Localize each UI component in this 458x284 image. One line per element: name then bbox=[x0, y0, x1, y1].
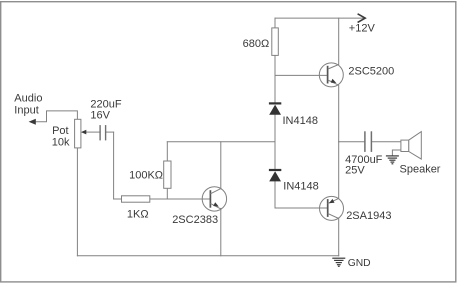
wire Q3 emitter riser bbox=[338, 142, 340, 199]
diode IN4148 lower bbox=[269, 169, 281, 182]
speaker bbox=[401, 132, 421, 160]
wire 220uF to input vertical bbox=[106, 131, 114, 133]
svg-text:25V: 25V bbox=[345, 165, 365, 177]
wire pot bottom drop bbox=[76, 148, 78, 256]
wire D2 to Q3 base bbox=[275, 182, 328, 209]
svg-text:10k: 10k bbox=[52, 137, 70, 149]
wire top rail to +12V bbox=[275, 17, 364, 19]
wire 680 bottom to D1 bbox=[274, 55, 276, 102]
diode IN4148 upper bbox=[269, 102, 281, 115]
svg-text:Input: Input bbox=[14, 104, 38, 116]
ground speaker bbox=[386, 156, 399, 164]
svg-text:Speaker: Speaker bbox=[400, 163, 441, 175]
transistor Q2 2SC2383 bbox=[202, 187, 226, 211]
ground GND bbox=[332, 258, 345, 266]
wire Q3 collector drop bbox=[338, 219, 340, 256]
wire bottom rail bbox=[77, 255, 338, 257]
wire 100K top stub bbox=[166, 142, 168, 161]
svg-text:Audio: Audio bbox=[14, 93, 42, 105]
resistor 1K bbox=[122, 196, 150, 202]
potentiometer Pot 10k bbox=[75, 119, 87, 148]
wire Q1 collector riser bbox=[338, 18, 340, 64]
+12V supply arrow bbox=[358, 14, 366, 23]
capacitor 4700uF bbox=[365, 131, 372, 152]
svg-text:+12V: +12V bbox=[349, 23, 376, 35]
svg-text:1KΩ: 1KΩ bbox=[127, 209, 149, 221]
resistor 100K bbox=[164, 161, 171, 188]
wire bias mid rail bbox=[167, 141, 275, 143]
wire audio input zigzag bbox=[35, 111, 78, 122]
svg-text:2SA1943: 2SA1943 bbox=[346, 210, 391, 222]
transistor Q3 2SA1943 bbox=[320, 196, 344, 220]
svg-text:16V: 16V bbox=[90, 109, 110, 121]
svg-text:GND: GND bbox=[348, 258, 371, 269]
svg-text:Pot: Pot bbox=[52, 125, 69, 137]
capacitor 220uF bbox=[100, 125, 106, 140]
wire D1 to D2 bbox=[274, 115, 276, 169]
resistor 680 bbox=[272, 28, 279, 56]
svg-text:680Ω: 680Ω bbox=[243, 38, 270, 50]
svg-text:100KΩ: 100KΩ bbox=[129, 169, 163, 181]
wire wiper to 220uF bbox=[86, 131, 101, 133]
wire 4700uF to speaker bbox=[372, 141, 401, 143]
wire Q1 emitter drop bbox=[338, 85, 340, 141]
wire output row to 4700uF bbox=[339, 141, 365, 143]
wire 100K bottom stub bbox=[166, 188, 168, 199]
wire speaker to ground bbox=[392, 150, 401, 156]
svg-text:2SC2383: 2SC2383 bbox=[172, 214, 218, 226]
svg-text:IN4148: IN4148 bbox=[283, 181, 318, 193]
svg-text:2SC5200: 2SC5200 bbox=[348, 66, 394, 78]
wire Q2 collector riser bbox=[220, 142, 222, 189]
audio input terminal arrow bbox=[29, 119, 36, 125]
wire input vertical bbox=[113, 132, 115, 199]
wire base row 1K to Q2 bbox=[150, 198, 210, 200]
svg-text:IN4148: IN4148 bbox=[283, 115, 318, 127]
transistor Q1 2SC5200 bbox=[275, 63, 343, 87]
wire 680 top stub bbox=[274, 18, 276, 28]
wire base row left of 1K bbox=[114, 198, 122, 200]
wire Q2 emitter drop bbox=[220, 208, 222, 255]
